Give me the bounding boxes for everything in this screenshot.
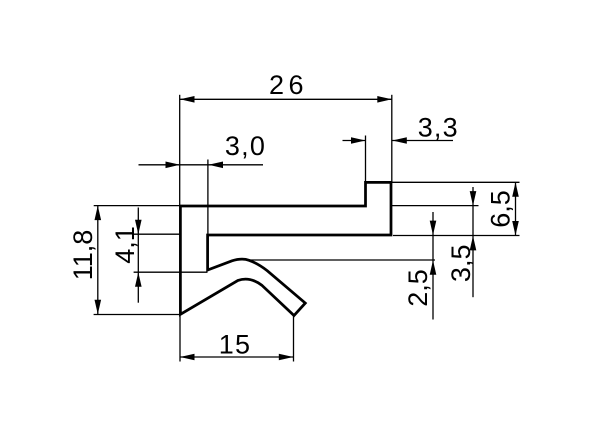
wire: dim line 15 <box>180 356 293 358</box>
wire: extension line 3,3 left <box>365 136 367 183</box>
arrow 2,5 bottom (outside, pointing up) <box>430 260 437 275</box>
wire: dim line 6,5 <box>515 182 517 235</box>
wire: dim line 3,0 <box>139 164 264 166</box>
arrow 3,5 top (outside, pointing down) <box>470 191 477 206</box>
svg-text:15: 15 <box>219 329 251 359</box>
wire: extension bottom common (6,5 / 3,5 / 2,5) <box>393 235 520 237</box>
wire: extension 11,8 bottom <box>94 314 180 316</box>
wire: extension 2,5 bottom (hook peak) <box>249 259 435 261</box>
wire: extension 4,1 bottom <box>134 271 208 273</box>
arrow 3,3 left (outside, pointing right) <box>351 137 366 144</box>
wire: extension 3,5 top <box>392 205 479 207</box>
wire: dim line 3,3 left tail <box>343 140 366 142</box>
svg-text:2,5: 2,5 <box>403 269 433 307</box>
wire: dim line 11,8 <box>97 206 99 315</box>
arrow 26 right <box>377 96 392 103</box>
arrow 4,1 bottom (outside, pointing up) <box>135 272 142 287</box>
arrow 11,8 top <box>95 206 102 221</box>
wire: dim line 2,5 <box>432 212 434 320</box>
wire: extension 4,1 top <box>134 233 180 235</box>
arrow 2,5 top (outside, pointing down) <box>430 221 437 236</box>
profile outline <box>180 182 391 315</box>
arrow 11,8 bottom <box>95 300 102 315</box>
svg-text:11,8: 11,8 <box>68 230 98 281</box>
wire: extension 15 left <box>179 315 181 362</box>
wire: extension 11,8 top <box>94 205 180 207</box>
wire: dim line 26 <box>180 98 392 100</box>
wire: dim line 3,3 right tail <box>392 140 453 142</box>
arrow 6,5 bottom <box>512 221 519 236</box>
svg-text:26: 26 <box>269 70 308 100</box>
svg-text:3,0: 3,0 <box>225 131 266 161</box>
wire: extension 15 right <box>293 316 295 362</box>
svg-text:3,5: 3,5 <box>446 245 476 283</box>
arrow 15 right <box>279 354 294 361</box>
wire: extension line 3,0 right <box>207 160 209 236</box>
svg-text:4,1: 4,1 <box>110 226 140 264</box>
arrow 3,0 right (outside, pointing left) <box>209 162 224 169</box>
svg-text:3,3: 3,3 <box>418 113 459 143</box>
arrow 6,5 top <box>512 182 519 197</box>
wire: dim line 3,5 <box>472 187 474 297</box>
svg-text:6,5: 6,5 <box>486 190 516 228</box>
wire: extension 6,5 top <box>392 181 520 183</box>
wire: extension line 26/3,3 right <box>391 95 393 183</box>
arrow 4,1 top (outside, pointing down) <box>135 220 142 235</box>
arrow 3,3 right (outside, pointing left) <box>392 137 407 144</box>
arrow 3,0 left (outside, pointing right) <box>166 162 181 169</box>
arrow 3,5 bottom (outside, pointing up) <box>470 236 477 251</box>
arrow 26 left <box>180 96 195 103</box>
wire: dim line 4,1 <box>137 208 139 303</box>
arrow 15 left <box>180 354 195 361</box>
wire: extension line 26 left <box>179 95 181 206</box>
